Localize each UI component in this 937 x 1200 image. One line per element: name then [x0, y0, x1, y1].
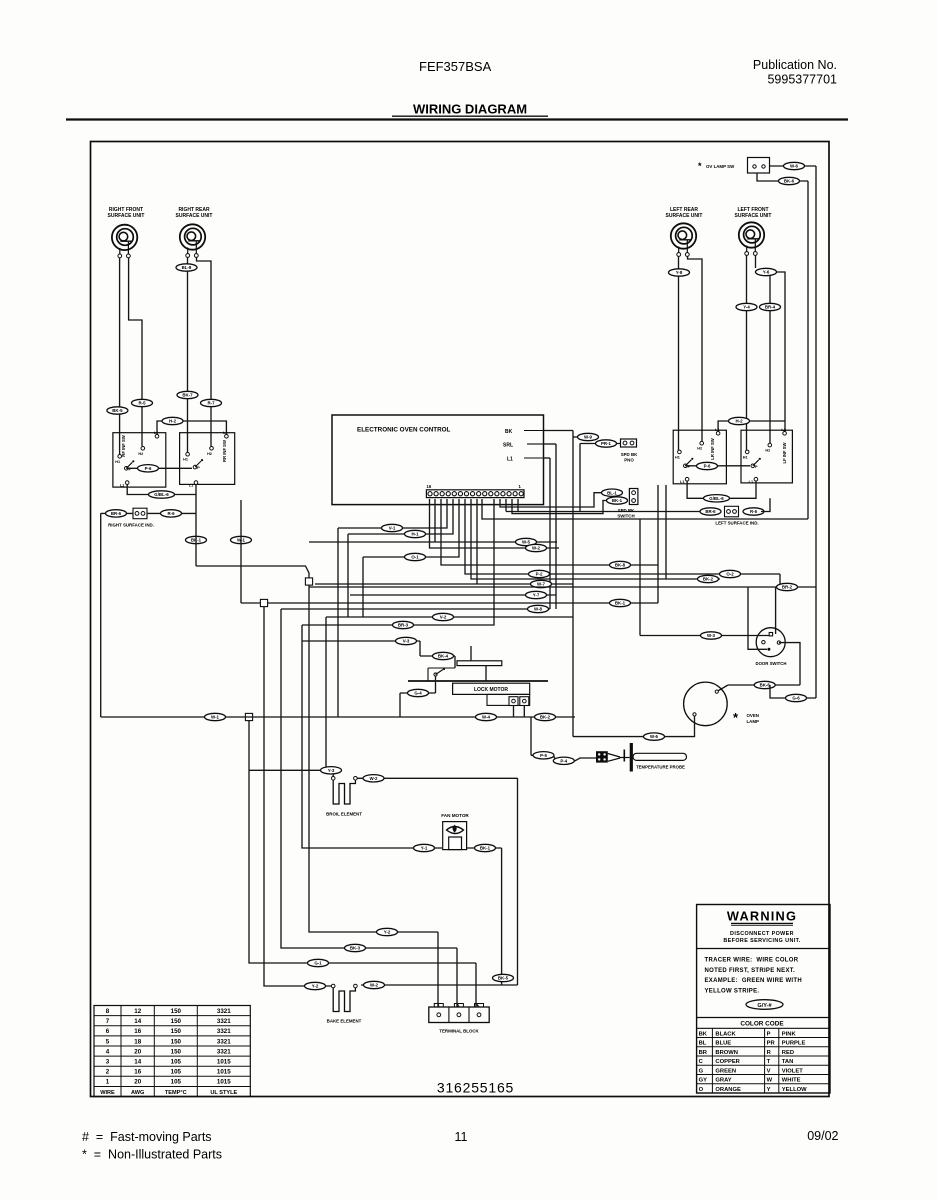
- svg-text:L1: L1: [507, 457, 513, 463]
- wire label Y-8: [669, 269, 690, 276]
- svg-text:5995377701: 5995377701: [767, 73, 837, 87]
- svg-text:BK: BK: [699, 1031, 708, 1037]
- svg-text:H1: H1: [183, 458, 188, 462]
- wire G/BL left: [687, 481, 756, 498]
- svg-text:1: 1: [106, 1079, 110, 1086]
- svg-text:SURFACE UNIT: SURFACE UNIT: [735, 213, 772, 219]
- svg-text:BR-3: BR-3: [398, 623, 409, 628]
- wire riser x196: [195, 495, 197, 567]
- oven lamp: [684, 682, 759, 726]
- right rear surface unit: [176, 207, 213, 219]
- wire label P-6: [138, 465, 159, 472]
- svg-text:Y-7: Y-7: [533, 593, 540, 598]
- svg-text:COLOR CODE: COLOR CODE: [740, 1021, 784, 1028]
- right front surface unit: [108, 207, 145, 219]
- wire pin drop x435: [434, 499, 436, 542]
- wire spd sw feed 1: [500, 493, 602, 507]
- svg-text:BR-6: BR-6: [705, 509, 716, 514]
- wire riser x400: [399, 693, 401, 717]
- wire tb feed 3: [475, 963, 477, 1007]
- wire bake right row: [361, 984, 518, 986]
- svg-text:11: 11: [455, 1130, 468, 1144]
- wire label O-1: [405, 553, 426, 560]
- svg-text:BR-4: BR-4: [765, 305, 776, 310]
- svg-text:H2: H2: [138, 452, 143, 456]
- wire label BL-8: [176, 264, 197, 271]
- svg-text:20: 20: [134, 1079, 141, 1086]
- junction node C: [245, 713, 252, 720]
- wire label BR-3: [393, 621, 414, 628]
- wire label P-4: [553, 757, 574, 764]
- svg-text:YELLOW STRIPE.: YELLOW STRIPE.: [705, 988, 760, 994]
- svg-text:1015: 1015: [217, 1059, 231, 1066]
- svg-text:COPPER: COPPER: [715, 1059, 740, 1065]
- wire LF L2 a: [755, 255, 757, 268]
- svg-text:14: 14: [134, 1059, 141, 1066]
- wire bus BR-3: [302, 499, 494, 625]
- svg-text:PR-1: PR-1: [601, 441, 612, 446]
- svg-text:P: P: [767, 1031, 771, 1037]
- svg-text:G-4: G-4: [414, 691, 422, 696]
- wire riser x517: [517, 778, 519, 985]
- svg-text:W-1: W-1: [211, 715, 220, 720]
- svg-text:H-2: H-2: [169, 419, 177, 424]
- wire label BR-6: [106, 510, 127, 517]
- svg-text:* = Non-Illustrated Parts: * = Non-Illustrated Parts: [82, 1148, 222, 1162]
- wire door top feed: [640, 635, 769, 637]
- wire label G-1: [308, 959, 329, 966]
- svg-text:BK-1: BK-1: [612, 498, 623, 503]
- wire label BK-1: [186, 536, 207, 543]
- svg-text:W-2: W-2: [370, 983, 379, 988]
- svg-text:3321: 3321: [217, 1018, 231, 1025]
- svg-text:NOTED FIRST, STRIPE NEXT.: NOTED FIRST, STRIPE NEXT.: [705, 968, 796, 974]
- svg-text:BEFORE SERVICING UNIT.: BEFORE SERVICING UNIT.: [723, 938, 800, 944]
- svg-text:BK-5: BK-5: [498, 976, 509, 981]
- svg-text:W-8: W-8: [534, 607, 543, 612]
- wire door feed riser: [639, 519, 641, 636]
- svg-text:WHITE: WHITE: [782, 1078, 801, 1084]
- svg-text:150: 150: [171, 1008, 182, 1015]
- wire label W-1: [205, 713, 226, 720]
- wire LF L2 b: [777, 272, 786, 433]
- wire fan right: [467, 847, 502, 849]
- svg-text:GY: GY: [699, 1078, 708, 1084]
- wire spd pno row 2: [580, 443, 620, 445]
- wire label BK-2: [535, 713, 556, 720]
- svg-text:W: W: [767, 1078, 773, 1084]
- wire bus V-2: [326, 616, 573, 618]
- bake element: [327, 984, 362, 1023]
- svg-text:150: 150: [171, 1048, 182, 1055]
- switch left rear INF SW: [673, 428, 726, 484]
- wire label BK-4: [433, 652, 454, 659]
- wire into node A: [196, 566, 309, 578]
- wire label Y-2: [305, 982, 326, 989]
- wire RF H2: [129, 258, 142, 447]
- wire spd pno row 1: [573, 436, 580, 438]
- svg-text:BK-5: BK-5: [112, 408, 123, 413]
- fan motor: [441, 813, 469, 850]
- probe body: [633, 753, 687, 760]
- svg-text:RR INF SW: RR INF SW: [222, 440, 227, 462]
- svg-text:105: 105: [171, 1079, 182, 1086]
- svg-text:SWITCH: SWITCH: [617, 513, 634, 518]
- svg-text:G-6: G-6: [792, 696, 800, 701]
- svg-text:6: 6: [106, 1028, 110, 1035]
- wire label W-7: [531, 580, 552, 587]
- svg-text:Y-3: Y-3: [328, 768, 335, 773]
- wire label Y-7: [526, 591, 547, 598]
- svg-text:P-6: P-6: [145, 466, 152, 471]
- wire label R-6: [743, 508, 764, 515]
- wire label BK-2: [698, 575, 719, 582]
- svg-text:ORANGE: ORANGE: [715, 1087, 741, 1093]
- svg-text:W-6: W-6: [790, 164, 799, 169]
- svg-text:H1: H1: [115, 460, 120, 464]
- svg-text:# = Fast-moving Parts: # = Fast-moving Parts: [82, 1130, 212, 1144]
- electronic oven control U1: [332, 415, 544, 505]
- wire label R-6: [161, 510, 182, 517]
- svg-text:O-1: O-1: [411, 555, 419, 560]
- svg-text:P-5: P-5: [540, 753, 547, 758]
- wire L2 link right pair: [157, 421, 226, 435]
- svg-text:P-2: P-2: [536, 572, 543, 577]
- wire riser x302 to fan: [302, 625, 442, 848]
- oven lamp switch: [698, 158, 770, 174]
- svg-text:P: P: [755, 465, 758, 469]
- wire door bottom feed: [748, 587, 767, 649]
- svg-text:LAMP: LAMP: [747, 719, 760, 724]
- svg-text:TRACER WIRE: WIRE COLOR: TRACER WIRE: WIRE COLOR: [705, 958, 799, 964]
- lock switch arm: [428, 668, 455, 681]
- wire riser x666: [665, 485, 667, 579]
- wire arm drop: [435, 676, 437, 693]
- wire pin drop x477: [476, 499, 478, 584]
- wire bus W-7: [315, 583, 573, 585]
- svg-text:105: 105: [171, 1069, 182, 1076]
- svg-text:PR: PR: [767, 1041, 776, 1047]
- svg-text:G-1: G-1: [314, 961, 322, 966]
- svg-text:BL-1: BL-1: [607, 490, 617, 495]
- svg-text:BROIL ELEMENT: BROIL ELEMENT: [326, 812, 362, 817]
- svg-text:16: 16: [134, 1028, 141, 1035]
- svg-text:316255165: 316255165: [437, 1080, 514, 1096]
- wire BK exit: [543, 430, 573, 432]
- wire bus W-5: [309, 541, 557, 543]
- wire riser x100: [100, 513, 102, 717]
- svg-text:2: 2: [106, 1069, 110, 1076]
- svg-text:R-7: R-7: [207, 401, 215, 406]
- svg-text:WIRING DIAGRAM: WIRING DIAGRAM: [413, 102, 527, 117]
- svg-text:TERMINAL BLOCK: TERMINAL BLOCK: [439, 1029, 479, 1034]
- svg-text:G: G: [699, 1068, 704, 1074]
- svg-text:Y-1: Y-1: [421, 846, 428, 851]
- svg-text:P: P: [197, 466, 200, 470]
- svg-text:LEFT FRONT: LEFT FRONT: [737, 207, 768, 213]
- svg-text:W-9: W-9: [584, 435, 593, 440]
- wire label Y-6: [756, 268, 777, 275]
- svg-text:09/02: 09/02: [807, 1129, 838, 1143]
- surface unit coil left front: [739, 222, 764, 255]
- wire riser x264 to bake: [264, 607, 333, 987]
- wire RR H1: [187, 258, 189, 453]
- svg-text:V-2: V-2: [440, 615, 447, 620]
- wire label W-8: [528, 605, 549, 612]
- wire SRL exit: [543, 443, 556, 445]
- svg-text:R-5: R-5: [138, 401, 146, 406]
- svg-text:Publication No.: Publication No.: [753, 58, 837, 72]
- junction node A: [305, 578, 312, 585]
- svg-text:G/BL-6: G/BL-6: [709, 496, 724, 501]
- svg-text:*: *: [698, 161, 702, 171]
- wire label G-6: [786, 694, 807, 701]
- wire bus BK-1 long: [241, 602, 658, 604]
- wire label W-6: [784, 162, 805, 169]
- svg-text:O: O: [699, 1087, 704, 1093]
- svg-text:BK-7: BK-7: [182, 393, 193, 398]
- svg-text:Y-2: Y-2: [384, 930, 391, 935]
- svg-text:LR INF SW: LR INF SW: [710, 438, 715, 459]
- svg-text:AWG: AWG: [131, 1090, 144, 1096]
- svg-text:SURFACE UNIT: SURFACE UNIT: [108, 213, 145, 219]
- wire label H-1: [405, 530, 426, 537]
- wire riser x580: [579, 444, 581, 512]
- wire label O-2: [720, 570, 741, 577]
- svg-text:150: 150: [171, 1018, 182, 1025]
- svg-text:BAKE ELEMENT: BAKE ELEMENT: [327, 1019, 362, 1024]
- svg-text:H-2: H-2: [735, 419, 743, 424]
- wire probe row: [531, 755, 596, 761]
- svg-text:3321: 3321: [217, 1008, 231, 1015]
- wire label R-5: [132, 399, 153, 406]
- wire bus BK-8: [441, 499, 658, 565]
- surface unit coil right front: [112, 225, 137, 258]
- svg-text:DOOR SWITCH: DOOR SWITCH: [755, 661, 786, 666]
- svg-text:PNO: PNO: [624, 458, 634, 463]
- wire RR H2: [197, 258, 212, 447]
- svg-text:W-2: W-2: [370, 776, 379, 781]
- svg-text:GREEN: GREEN: [715, 1068, 736, 1074]
- wire label W-4: [476, 713, 497, 720]
- svg-text:BR-2: BR-2: [782, 585, 793, 590]
- svg-text:150: 150: [171, 1028, 182, 1035]
- wire tb feed 1: [437, 932, 439, 1007]
- probe plug taper: [608, 750, 630, 762]
- color code table: [697, 1028, 830, 1093]
- wire bus V-1: [338, 499, 447, 528]
- door switch S1: [755, 628, 786, 666]
- svg-text:BK-6: BK-6: [760, 683, 771, 688]
- wire riser x338: [337, 528, 339, 717]
- wire bus V-3: [302, 640, 420, 642]
- svg-text:RIGHT FRONT: RIGHT FRONT: [109, 207, 143, 213]
- EOC terminal strip pins 16..1: [426, 484, 524, 498]
- wire gauge table: [94, 1006, 250, 1097]
- wire label BK-5: [107, 407, 128, 414]
- svg-text:VIOLET: VIOLET: [782, 1068, 803, 1074]
- svg-text:EXAMPLE: GREEN WIRE WITH: EXAMPLE: GREEN WIRE WITH: [705, 978, 803, 984]
- svg-text:G/BL-6: G/BL-6: [154, 492, 169, 497]
- wire label P-6: [697, 462, 718, 469]
- svg-text:RED: RED: [782, 1050, 794, 1056]
- svg-text:L1: L1: [189, 484, 193, 488]
- wire bus O-1: [363, 499, 459, 557]
- svg-text:H1: H1: [675, 455, 680, 459]
- svg-text:BK-1: BK-1: [480, 846, 491, 851]
- wire label BR-2: [777, 583, 798, 590]
- svg-text:Y-4: Y-4: [743, 305, 750, 310]
- svg-text:V-1: V-1: [389, 526, 396, 531]
- svg-text:20: 20: [134, 1048, 141, 1055]
- svg-text:W-2: W-2: [532, 546, 541, 551]
- wire left surface ind row: [506, 511, 703, 513]
- wire door right: [779, 643, 800, 685]
- probe connector: [596, 751, 608, 762]
- svg-text:LOCK MOTOR: LOCK MOTOR: [474, 687, 508, 693]
- wire riser x348: [347, 534, 349, 617]
- wire pin drop x506: [505, 499, 507, 512]
- svg-text:BK: BK: [505, 429, 513, 435]
- wire label V-3: [396, 637, 417, 644]
- wire bus W-2: [430, 499, 560, 548]
- wire label W-9: [578, 433, 599, 440]
- switch right rear INF SW: [180, 431, 235, 488]
- wire riser x326: [325, 617, 327, 770]
- svg-text:W-6: W-6: [650, 734, 659, 739]
- svg-text:SPD BK: SPD BK: [621, 452, 638, 457]
- svg-text:SPD BK: SPD BK: [618, 508, 635, 513]
- svg-text:3: 3: [106, 1059, 110, 1066]
- wire lamp diagonal: [717, 685, 728, 692]
- svg-text:H2: H2: [765, 449, 770, 453]
- svg-text:V-3: V-3: [403, 639, 410, 644]
- wire label W-2: [363, 775, 384, 782]
- wire riser x309 to row Y-2: [309, 585, 438, 932]
- svg-text:R-6: R-6: [167, 511, 175, 516]
- probe handle bar: [630, 743, 633, 772]
- wire label P-2: [529, 570, 550, 577]
- wire bus H-1: [348, 499, 453, 534]
- wire LR H2: [688, 256, 703, 441]
- svg-text:BK-2: BK-2: [540, 715, 551, 720]
- wire label BR-6: [700, 508, 721, 515]
- lock motor body: [453, 683, 530, 705]
- svg-text:OV LAMP SW: OV LAMP SW: [706, 164, 735, 169]
- wire label W-2: [364, 981, 385, 988]
- wire lock pin 1 drop: [513, 706, 515, 718]
- svg-text:BL: BL: [699, 1041, 707, 1047]
- wire label G-4: [408, 689, 429, 696]
- svg-text:SURFACE UNIT: SURFACE UNIT: [176, 213, 213, 219]
- svg-text:UL STYLE: UL STYLE: [210, 1090, 237, 1096]
- svg-text:L1: L1: [749, 480, 753, 484]
- svg-text:TAN: TAN: [782, 1059, 793, 1065]
- wire G/BL right: [127, 485, 196, 495]
- svg-text:Y-8: Y-8: [676, 270, 683, 275]
- wire label Y-4: [736, 303, 757, 310]
- svg-text:PURPLE: PURPLE: [782, 1041, 806, 1047]
- svg-text:FEF357BSA: FEF357BSA: [419, 59, 492, 74]
- wire bus top right: [482, 499, 808, 519]
- wire riser x241: [240, 500, 242, 603]
- svg-text:H-1: H-1: [411, 532, 419, 537]
- svg-text:5: 5: [106, 1038, 110, 1045]
- wire broil right row: [358, 777, 518, 779]
- wire tb kink 2: [457, 1004, 459, 1008]
- wire label BR-4: [760, 303, 781, 310]
- wire riser x281 to row BK-3: [281, 609, 457, 948]
- svg-text:16: 16: [427, 484, 432, 489]
- wire: [770, 165, 817, 167]
- wire label BK-6: [779, 177, 800, 184]
- wire label R-7: [201, 399, 222, 406]
- svg-text:W-5: W-5: [522, 540, 531, 545]
- svg-text:TEMP°C: TEMP°C: [165, 1090, 187, 1096]
- svg-text:4: 4: [106, 1048, 110, 1055]
- svg-text:3321: 3321: [217, 1028, 231, 1035]
- svg-text:H2: H2: [697, 447, 702, 451]
- wire L1 exit: [543, 457, 550, 459]
- wire lock feed row: [420, 655, 455, 657]
- svg-text:BROWN: BROWN: [715, 1050, 738, 1056]
- wire LR H1: [678, 256, 680, 450]
- wire label BK-1: [610, 599, 631, 606]
- svg-text:YELLOW: YELLOW: [782, 1087, 807, 1093]
- wire label G/BL-6: [149, 491, 175, 498]
- svg-text:BLUE: BLUE: [715, 1041, 731, 1047]
- wire cam stem: [485, 666, 487, 681]
- wire label PR-1: [596, 440, 617, 447]
- svg-text:LEFT SURFACE IND.: LEFT SURFACE IND.: [715, 521, 758, 526]
- svg-text:WARNING: WARNING: [727, 909, 797, 924]
- wire BK riser: [572, 431, 574, 737]
- wire probe riser: [530, 717, 532, 755]
- svg-text:BK-8: BK-8: [615, 563, 626, 568]
- svg-text:SURFACE UNIT: SURFACE UNIT: [666, 213, 703, 219]
- wire label V-2: [433, 613, 454, 620]
- svg-text:ELECTRONIC OVEN CONTROL: ELECTRONIC OVEN CONTROL: [357, 427, 451, 434]
- wire door switch top feed: [775, 587, 777, 634]
- wire label BK-8: [610, 561, 631, 568]
- svg-text:BK-1: BK-1: [615, 601, 626, 606]
- lock motor bus bar: [408, 680, 548, 682]
- surface unit coil right rear: [180, 224, 205, 257]
- svg-text:FAN MOTOR: FAN MOTOR: [441, 813, 469, 818]
- svg-text:BK-6: BK-6: [784, 179, 795, 184]
- svg-text:BR: BR: [699, 1050, 708, 1056]
- wire right surface ind row: [101, 512, 196, 514]
- wire riser x501: [501, 848, 503, 985]
- warning box: [697, 905, 830, 1094]
- svg-text:L2: L2: [781, 428, 785, 432]
- wire label BK-7: [177, 391, 198, 398]
- svg-text:BK-2: BK-2: [703, 577, 714, 582]
- wire broil feed row: [249, 769, 333, 771]
- wire label Y-1: [414, 844, 435, 851]
- wire tb feed 2: [456, 948, 458, 1007]
- wire label BK-1: [475, 844, 496, 851]
- wire left ind stub: [761, 498, 770, 511]
- svg-text:DISCONNECT POWER: DISCONNECT POWER: [730, 931, 794, 937]
- wire riser x249 to row G-1: [249, 720, 476, 963]
- wire label H-2: [729, 417, 750, 424]
- svg-text:1015: 1015: [217, 1069, 231, 1076]
- wire riser x363: [362, 557, 364, 617]
- svg-text:SRL: SRL: [503, 443, 513, 449]
- wire lamp top row: [728, 684, 800, 686]
- wire LF H2: [769, 276, 771, 443]
